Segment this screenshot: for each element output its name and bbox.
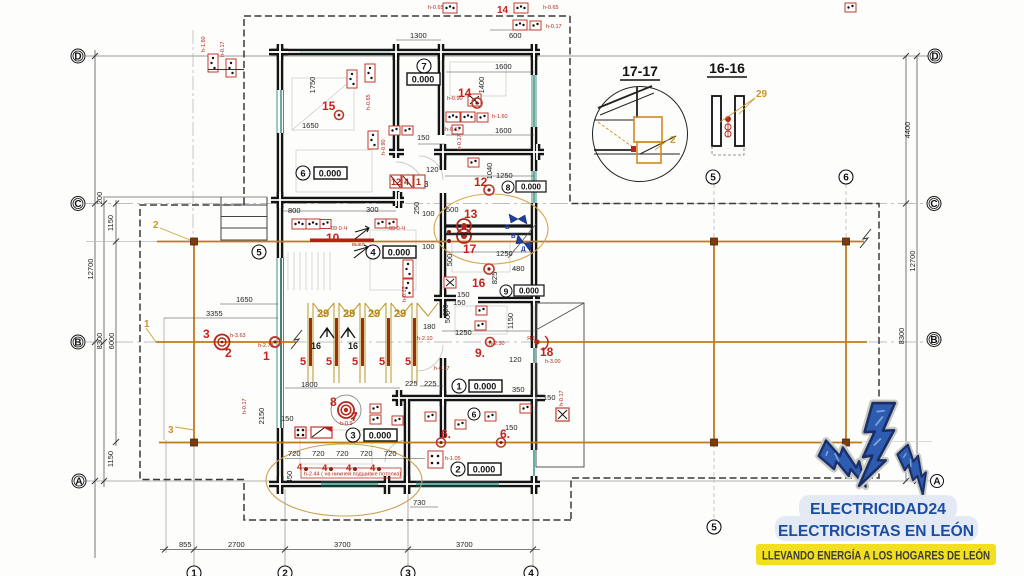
svg-text:3355: 3355 <box>206 309 223 318</box>
cable run O2 left <box>156 341 296 343</box>
outlet 2x2 box h-1.05 <box>428 451 443 468</box>
bubble 2 <box>278 566 292 576</box>
svg-text:09 0-Ч: 09 0-Ч <box>389 226 406 232</box>
svg-text:9: 9 <box>504 287 509 297</box>
svg-text:h-2.44 ( на нижней подшивке по: h-2.44 ( на нижней подшивке потолка) <box>304 471 401 478</box>
radiator hot cores dark red <box>311 318 415 366</box>
detail circle 17-17 <box>593 86 688 182</box>
orange region labels <box>144 220 174 436</box>
svg-text:3700: 3700 <box>456 540 473 549</box>
svg-text:2: 2 <box>282 569 288 576</box>
svg-text:h-3.00: h-3.00 <box>545 359 561 365</box>
boundary upper right step <box>570 16 879 520</box>
svg-text:0.000: 0.000 <box>521 183 542 192</box>
svg-text:2: 2 <box>670 135 676 146</box>
svg-text:855: 855 <box>179 540 192 549</box>
cable riser x714 <box>713 240 715 443</box>
svg-text:500: 500 <box>445 254 454 267</box>
svg-text:120: 120 <box>509 355 522 364</box>
svg-text:480: 480 <box>512 264 525 273</box>
ceiling lamp arrows <box>355 226 369 239</box>
bubble 3 <box>401 566 415 576</box>
svg-text:h-0.17: h-0.17 <box>445 127 461 133</box>
svg-text:h-1.60: h-1.60 <box>201 36 207 52</box>
svg-text:h-0.65: h-0.65 <box>366 94 372 110</box>
svg-text:h-0.65: h-0.65 <box>428 5 444 11</box>
bubble 4 <box>524 566 538 576</box>
svg-text:8: 8 <box>330 395 337 409</box>
elevation boxes 0.000 <box>314 73 546 475</box>
svg-text:100: 100 <box>422 209 435 218</box>
cable junction markers <box>191 238 850 446</box>
svg-text:5: 5 <box>300 356 306 368</box>
svg-text:4: 4 <box>297 462 303 473</box>
svg-text:16: 16 <box>311 341 321 351</box>
grid axis 2 vertical <box>284 489 286 566</box>
svg-text:5: 5 <box>352 356 358 368</box>
svg-text:14: 14 <box>497 5 509 16</box>
terrace outline <box>536 303 584 467</box>
red ring sockets <box>270 98 506 447</box>
svg-text:225: 225 <box>405 379 418 388</box>
svg-text:C: C <box>74 199 81 210</box>
svg-text:5: 5 <box>405 356 411 368</box>
svg-text:17-17: 17-17 <box>622 63 658 79</box>
svg-text:5: 5 <box>256 248 262 259</box>
svg-text:0.000: 0.000 <box>388 248 411 258</box>
cable run O1 <box>157 241 864 243</box>
svg-text:C: C <box>930 199 937 210</box>
red labels 4 with dots <box>297 462 376 474</box>
boundary bottom edge <box>140 16 571 520</box>
svg-text:18: 18 <box>540 345 554 359</box>
red labels <box>203 5 554 441</box>
svg-text:h-2.73: h-2.73 <box>258 343 274 349</box>
svg-text:h-0.17: h-0.17 <box>402 286 408 302</box>
svg-text:0.000: 0.000 <box>369 431 392 441</box>
note box h-2.44 <box>301 468 401 478</box>
svg-text:h-0.17: h-0.17 <box>220 41 226 57</box>
ORANGE <box>146 228 932 443</box>
LOGO <box>756 399 996 565</box>
svg-text:100: 100 <box>422 242 435 251</box>
svg-text:h-0.17: h-0.17 <box>546 24 562 30</box>
svg-text:D: D <box>74 52 81 63</box>
lean-to top line <box>105 196 267 198</box>
grid axis D <box>86 55 928 57</box>
svg-text:0.000: 0.000 <box>412 75 435 85</box>
svg-text:300: 300 <box>366 205 379 214</box>
DASHED BOUNDARY <box>140 16 879 520</box>
leader to label 2 <box>160 228 194 242</box>
svg-text:h-0.17: h-0.17 <box>559 390 565 406</box>
right dimension line outer <box>916 56 918 481</box>
wall H4 corridor upper <box>446 224 531 227</box>
svg-text:Д: Д <box>521 246 526 253</box>
svg-text:720: 720 <box>288 449 301 458</box>
svg-text:5: 5 <box>326 356 332 368</box>
left dimension line inner <box>115 200 117 446</box>
grid axis 5 vertical <box>713 184 715 238</box>
svg-text:29: 29 <box>368 308 380 320</box>
svg-text:450: 450 <box>285 471 294 484</box>
radiator labels 29 <box>317 308 406 320</box>
grid axis 6 vertical <box>845 184 847 238</box>
svg-text:8300: 8300 <box>897 328 906 345</box>
radiator loop group <box>300 303 438 383</box>
svg-text:150: 150 <box>281 414 294 423</box>
svg-text:1600: 1600 <box>495 126 512 135</box>
svg-text:10: 10 <box>326 231 340 245</box>
helper dim lines <box>164 30 534 507</box>
svg-text:3: 3 <box>424 180 429 189</box>
svg-text:720: 720 <box>360 449 373 458</box>
svg-text:h-0.17: h-0.17 <box>242 398 248 414</box>
svg-text:3700: 3700 <box>334 540 351 549</box>
svg-text:5: 5 <box>710 173 716 184</box>
svg-text:150: 150 <box>417 133 430 142</box>
svg-text:6.: 6. <box>500 427 510 441</box>
dimension texts left <box>86 122 917 549</box>
svg-text:120: 120 <box>426 165 439 174</box>
bubble 5 bottom <box>707 520 721 534</box>
staircase hatch <box>288 252 330 290</box>
svg-text:1300: 1300 <box>410 31 427 40</box>
bottom dimension line <box>160 549 540 551</box>
bubble B right <box>927 333 941 347</box>
grid axis 3 vertical <box>407 494 409 566</box>
blue vent symbols <box>508 224 536 258</box>
svg-text:5: 5 <box>379 356 385 368</box>
door swing arcs <box>385 156 443 462</box>
svg-text:6: 6 <box>300 169 305 180</box>
svg-text:15: 15 <box>322 99 336 113</box>
svg-text:2: 2 <box>153 220 159 231</box>
12-4-1 boxes <box>390 175 425 188</box>
svg-text:h-0.90: h-0.90 <box>447 96 463 102</box>
svg-text:ELECTRICIDAD24: ELECTRICIDAD24 <box>810 501 946 518</box>
svg-text:LLEVANDO ENERGÍA A LOS HOGARES: LLEVANDO ENERGÍA A LOS HOGARES DE LEÓN <box>762 548 990 563</box>
svg-text:720: 720 <box>312 449 325 458</box>
svg-text:6000: 6000 <box>107 333 116 350</box>
detail 16-16 base dashed <box>712 146 744 155</box>
section title 17-17 <box>620 60 747 80</box>
svg-text:h-0.65: h-0.65 <box>543 5 559 11</box>
AXES <box>86 30 930 566</box>
svg-text:600: 600 <box>443 304 450 316</box>
cable riser x194 <box>193 242 195 444</box>
svg-text:150: 150 <box>453 298 466 307</box>
left dimension line mid <box>103 196 105 487</box>
svg-text:5: 5 <box>711 523 717 534</box>
svg-text:h-0.17: h-0.17 <box>434 366 450 372</box>
radiator labels 5 red <box>300 356 411 368</box>
svg-text:1250: 1250 <box>496 171 513 180</box>
svg-text:13: 13 <box>464 207 478 221</box>
svg-text:h-1.60: h-1.60 <box>492 114 508 120</box>
boiler dot 18 <box>534 339 539 344</box>
dimension ticks <box>92 53 920 553</box>
detail 16-16 stud right <box>735 96 744 146</box>
svg-text:8: 8 <box>506 183 511 193</box>
svg-text:600: 600 <box>509 31 522 40</box>
bubble 5 top <box>706 170 720 184</box>
bubble C left <box>71 197 85 211</box>
svg-text:3: 3 <box>203 327 210 341</box>
brand banner line2 <box>775 516 978 541</box>
svg-text:1250: 1250 <box>496 249 513 258</box>
svg-text:1750: 1750 <box>308 77 317 94</box>
double sockets 13-17 <box>457 219 471 243</box>
svg-text:720: 720 <box>384 449 397 458</box>
detail 16-16 fastener chain <box>725 116 731 137</box>
svg-text:29: 29 <box>317 308 329 320</box>
window frame thin black <box>277 75 536 486</box>
svg-text:0.000: 0.000 <box>519 287 540 296</box>
svg-text:выкл: выкл <box>352 242 365 248</box>
svg-text:225: 225 <box>424 379 437 388</box>
X-box symbol3 <box>444 277 456 288</box>
interior furniture light lines <box>292 62 510 464</box>
thermostat target symbol <box>215 335 230 350</box>
svg-text:730: 730 <box>413 498 426 507</box>
svg-text:1: 1 <box>144 319 150 330</box>
svg-text:A: A <box>75 477 82 488</box>
svg-text:h-0.90: h-0.90 <box>381 139 387 155</box>
axis B left stub <box>86 241 157 243</box>
cable riser x846 <box>845 240 847 443</box>
svg-text:6: 6 <box>472 410 477 420</box>
svg-text:29: 29 <box>756 89 768 100</box>
room tags <box>252 59 546 476</box>
svg-text:1400: 1400 <box>477 77 486 94</box>
svg-text:B: B <box>74 338 81 349</box>
left dimension line outer <box>94 50 96 558</box>
svg-text:3: 3 <box>405 569 411 576</box>
svg-text:350: 350 <box>512 385 525 394</box>
svg-text:16: 16 <box>348 341 358 351</box>
svg-text:7: 7 <box>421 62 426 73</box>
svg-text:h-2.10: h-2.10 <box>417 336 433 342</box>
highlighted cable segment 10 <box>310 238 374 241</box>
svg-text:500: 500 <box>446 205 459 214</box>
svg-text:29: 29 <box>394 308 406 320</box>
svg-text:29: 29 <box>343 308 355 320</box>
lightning bolt left <box>815 438 876 488</box>
svg-text:720: 720 <box>336 449 349 458</box>
svg-text:12: 12 <box>474 175 488 189</box>
cable run O2 right <box>534 341 867 343</box>
svg-text:4: 4 <box>370 248 376 259</box>
grid axis B <box>86 341 928 343</box>
bubble A right <box>931 475 944 488</box>
svg-text:0.000: 0.000 <box>319 169 342 179</box>
svg-text:8300: 8300 <box>95 333 104 350</box>
svg-text:1: 1 <box>191 569 197 576</box>
svg-text:0.000: 0.000 <box>473 465 496 475</box>
svg-text:1250: 1250 <box>455 328 472 337</box>
bubble C right <box>927 197 941 211</box>
svg-text:12700: 12700 <box>86 259 95 280</box>
leader to label 1 <box>146 328 156 342</box>
lightning bolt center <box>857 399 898 489</box>
survey ellipse right <box>434 194 548 264</box>
svg-text:A: A <box>933 477 940 488</box>
svg-text:ЯД: ЯД <box>527 336 535 342</box>
break mark on O2 <box>291 330 302 349</box>
svg-text:3: 3 <box>350 431 355 442</box>
svg-text:6.: 6. <box>441 427 451 441</box>
switch boxes scattered <box>208 3 856 438</box>
svg-text:2: 2 <box>455 465 460 476</box>
svg-text:1150: 1150 <box>106 215 115 231</box>
svg-text:h-3.63: h-3.63 <box>230 333 246 339</box>
bubble B left <box>71 335 85 349</box>
X-box symbol <box>556 408 569 421</box>
bubble D left <box>71 49 85 63</box>
svg-text:150: 150 <box>457 290 470 299</box>
grid axis 1 vertical <box>192 30 194 241</box>
svg-text:9.: 9. <box>475 346 485 360</box>
leader to label 3 <box>175 427 194 430</box>
svg-text:1: 1 <box>416 177 421 187</box>
tagline yellow banner <box>756 544 996 565</box>
bubble A left <box>72 474 86 488</box>
svg-text:16: 16 <box>472 276 486 290</box>
svg-text:ELECTRICISTAS EN LEÓN: ELECTRICISTAS EN LEÓN <box>778 521 974 540</box>
svg-text:1: 1 <box>263 349 270 363</box>
svg-text:12700: 12700 <box>908 251 917 272</box>
grid axis C <box>86 203 928 205</box>
svg-text:1150: 1150 <box>106 451 115 467</box>
detail 16-16 stud left <box>712 96 721 146</box>
svg-text:3: 3 <box>168 425 174 436</box>
svg-text:4: 4 <box>528 569 534 576</box>
svg-text:4400: 4400 <box>903 122 912 139</box>
svg-text:D: D <box>931 52 938 63</box>
corridor wall sockets <box>447 230 451 234</box>
right dimension line inner <box>905 56 907 481</box>
svg-text:16-16: 16-16 <box>709 60 745 76</box>
svg-text:1650: 1650 <box>302 121 319 130</box>
svg-text:800: 800 <box>288 206 301 215</box>
svg-text:B: B <box>930 335 937 346</box>
svg-text:h-0.9: h-0.9 <box>340 421 353 427</box>
brand banner line1 <box>799 495 957 520</box>
detail beams orange <box>598 117 662 163</box>
tiny h-labels red <box>201 5 565 462</box>
svg-text:1150: 1150 <box>506 313 515 329</box>
svg-text:1800: 1800 <box>301 380 318 389</box>
X-box symbol2 <box>468 94 481 106</box>
svg-text:6: 6 <box>843 173 849 184</box>
cable run O3 <box>159 442 862 444</box>
windows teal <box>281 52 534 484</box>
svg-text:250: 250 <box>412 202 421 215</box>
svg-text:0.000: 0.000 <box>474 382 497 392</box>
BUBBLES <box>71 49 944 576</box>
svg-text:1: 1 <box>456 382 462 393</box>
radiator tube pairs olive <box>308 303 438 383</box>
dim texts interior <box>206 31 556 507</box>
svg-text:2: 2 <box>225 346 232 360</box>
svg-text:17: 17 <box>463 242 477 256</box>
bubble D right <box>928 49 942 63</box>
grid axis A <box>86 480 930 482</box>
svg-text:В: В <box>505 224 510 231</box>
svg-text:h-0.17: h-0.17 <box>457 134 463 150</box>
svg-text:180: 180 <box>423 322 436 331</box>
svg-text:2700: 2700 <box>228 540 245 549</box>
svg-text:09 0-Ч: 09 0-Ч <box>331 226 348 232</box>
svg-text:В: В <box>511 233 516 240</box>
svg-text:200: 200 <box>95 192 104 205</box>
svg-text:2150: 2150 <box>257 408 266 425</box>
spiral heater symbol <box>331 395 361 425</box>
grid axis 4 vertical <box>532 489 534 566</box>
svg-text:h-1.05: h-1.05 <box>445 456 461 462</box>
bubble 1 <box>187 566 201 576</box>
bubble 6 top <box>839 170 853 184</box>
break mark right end O1 <box>860 229 871 248</box>
lean-to ladder <box>221 197 267 241</box>
survey ellipse bottom <box>266 444 422 516</box>
svg-text:1650: 1650 <box>236 295 253 304</box>
detail red mark <box>631 146 636 152</box>
svg-text:h-2.30: h-2.30 <box>489 341 505 347</box>
svg-text:150: 150 <box>543 393 556 402</box>
boundary top edge <box>244 15 570 17</box>
svg-text:1600: 1600 <box>495 62 512 71</box>
lightning bolt right <box>894 444 938 495</box>
